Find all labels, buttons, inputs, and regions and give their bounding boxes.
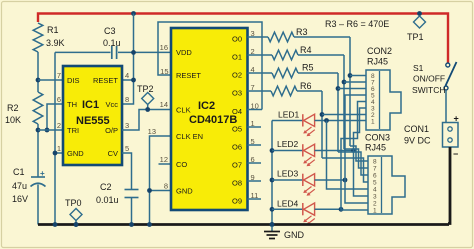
wire O8 stub [248,180,262,182]
wire +9V red rail [38,14,448,64]
svg-text:O/P: O/P [105,126,118,135]
svg-text:IC1: IC1 [82,99,99,111]
ground [271,226,273,231]
capacitor C1 [37,130,39,177]
svg-text:2: 2 [57,121,61,130]
node LED rail dots [270,148,275,153]
wire O to R3 [248,36,269,38]
wire R3 out [294,36,350,38]
LED LED4 [272,208,303,210]
resistor R3 [268,32,294,42]
svg-text:9V DC: 9V DC [404,136,431,146]
svg-text:3: 3 [373,194,377,201]
svg-text:RJ45: RJ45 [367,57,388,67]
svg-text:1: 1 [371,119,375,126]
svg-text:CLK: CLK [176,106,191,115]
svg-text:CV: CV [108,149,118,158]
capacitor C2 [122,153,132,189]
svg-text:+: + [40,169,45,178]
wire R5 net vertical [337,73,339,152]
wire R6 to CON2 [322,114,366,116]
resistor R4 [272,50,298,60]
test point TP2 [142,93,154,105]
svg-text:7: 7 [57,71,61,80]
svg-text:−: − [453,149,458,159]
node ground bus junctions [53,222,58,227]
svg-text:O8: O8 [232,179,242,188]
test point TP0 [70,209,82,221]
svg-text:8: 8 [373,159,377,166]
op-amp U1 IC1 NE555 body [63,66,122,165]
node LED2 tap [351,148,356,153]
wire R5 to CON2 [338,88,366,90]
svg-text:13: 13 [148,127,156,136]
LED LED3 [272,179,303,181]
wire RESET pin4 [122,79,134,81]
wire TRI pin2 [38,129,63,131]
svg-text:1: 1 [373,208,377,215]
svg-text:Vcc: Vcc [105,100,118,109]
wire LED4 riser to CON2 [341,102,366,210]
svg-text:O4: O4 [232,107,242,116]
svg-text:12: 12 [160,155,168,164]
svg-text:8: 8 [164,182,168,191]
svg-text:5: 5 [373,180,377,187]
svg-text:4: 4 [125,71,129,80]
op-amp U2 IC2 CD4017B body [171,28,248,210]
svg-text:R2: R2 [7,103,19,113]
svg-text:O9: O9 [232,197,242,206]
svg-text:14: 14 [160,100,168,109]
svg-text:R4: R4 [300,45,312,55]
node RESET pin4 junction [131,78,136,83]
svg-text:LED4: LED4 [277,199,299,209]
wire R6 net vertical [321,91,323,158]
svg-text:TRI: TRI [67,126,79,135]
svg-text:8: 8 [125,95,129,104]
svg-text:GND: GND [284,230,305,240]
switch S1 [446,63,450,67]
node V+ rail cross [131,50,136,55]
svg-text:5: 5 [125,144,129,153]
svg-text:CON3: CON3 [365,133,390,143]
node DIS junction [36,78,41,83]
node LED1 tap [324,118,329,123]
wire RESET15 bracket [158,22,262,110]
svg-text:6: 6 [57,95,61,104]
resistor R2 [33,92,43,124]
svg-text:6: 6 [373,173,377,180]
node R3 tap CON2 [348,73,353,78]
wire O4 pin10 stub [248,109,263,111]
svg-text:CON2: CON2 [367,46,392,56]
svg-text:15: 15 [160,67,168,76]
svg-text:O7: O7 [232,161,242,170]
svg-text:O0: O0 [232,35,242,44]
wire O9 stub [248,198,262,200]
wire O to R5 [248,72,273,74]
svg-text:R5: R5 [302,63,314,73]
wire V+ rail to VDD [118,51,171,53]
svg-text:0.1u: 0.1u [103,38,121,48]
svg-text:R3: R3 [296,27,308,37]
svg-text:GND: GND [176,187,193,196]
wire O6 stub [248,144,262,146]
svg-text:10K: 10K [5,115,21,125]
node TRI junction [36,128,41,133]
LED LED2 [272,150,303,152]
svg-text:TH: TH [67,100,77,109]
connector CON2 RJ45 jack [366,70,401,130]
wire CON1 minus to ground bus [448,147,450,224]
wire R4 out [298,54,344,56]
capacitor C3 [111,46,113,59]
connector CON3 RJ45 jack [368,156,405,214]
svg-text:3: 3 [125,121,129,130]
LED LED1 [272,120,303,122]
wire R4 to CON3 [344,149,368,168]
wire LED4 drop to CON3 [341,208,368,211]
wire TH pin6 [47,104,63,130]
svg-text:C1: C1 [13,167,25,177]
svg-text:SWITCH: SWITCH [412,85,446,95]
node R4 tap CON2 [342,80,347,85]
connector CON1 9V DC [443,123,459,148]
svg-text:0.01u: 0.01u [96,195,119,205]
wire R6 out [297,90,322,92]
svg-text:16: 16 [160,43,168,52]
svg-text:S1: S1 [413,63,424,73]
wire O7 stub [248,162,262,164]
resistor R6 [271,86,297,96]
svg-text:VDD: VDD [176,48,192,57]
node R5 tap CON2 [336,86,341,91]
svg-text:R6: R6 [300,81,312,91]
wire R5 out [298,72,338,74]
svg-text:CLK EN: CLK EN [176,132,203,141]
wire ground rail to C3 [55,51,111,53]
wire LED2 drop to CON3 [354,151,369,197]
wire LED ground rail [271,121,273,225]
resistor R1 [33,23,43,52]
svg-text:O2: O2 [232,71,242,80]
svg-text:+: + [454,114,459,124]
wire CO pin12 stub [159,163,172,165]
wire R5 to CON3 [338,152,368,175]
wire LED3 riser to CON2 [345,95,366,180]
wire ground bus [38,223,449,226]
wire O to R4 [248,54,273,56]
svg-text:C2: C2 [100,182,112,192]
test point TP1 [417,11,422,16]
wire R3 net vertical [349,37,351,146]
wire CLK EN pin13 ground [150,136,172,225]
svg-text:7: 7 [373,166,377,173]
wire R6 to CON3 [322,158,368,182]
wire LED3 drop to CON3 [345,180,368,203]
wire ground drop x55 [54,52,56,224]
node LED3 tap [343,178,348,183]
svg-text:4: 4 [373,187,377,194]
wire R3 to CON2 [350,75,366,77]
svg-text:C3: C3 [104,26,116,36]
node GND pin1 junction [53,151,58,156]
node TP0 junction [74,222,79,227]
svg-text:CON1: CON1 [404,124,429,134]
svg-text:CO: CO [176,160,187,169]
wire R3 to CON3 [350,146,368,161]
svg-text:16V: 16V [12,194,28,204]
node LED4 tap [339,207,344,212]
svg-text:RJ45: RJ45 [365,143,386,153]
wire R4 net vertical [343,55,345,149]
svg-text:3.9K: 3.9K [46,38,65,48]
svg-text:CD4017B: CD4017B [189,114,237,126]
svg-text:R1: R1 [47,25,59,35]
wire LED2 riser to CON2 [354,108,367,151]
resistor R5 [272,68,298,78]
svg-text:ON/OFF: ON/OFF [413,74,445,84]
svg-text:1: 1 [57,144,61,153]
svg-text:O6: O6 [232,143,242,152]
node GND pin8 junction [147,188,152,193]
svg-text:47u: 47u [12,181,27,191]
svg-text:R3 – R6 = 470E: R3 – R6 = 470E [325,19,389,29]
svg-text:IC2: IC2 [198,100,215,112]
node R6 tap CON2 [320,112,325,117]
svg-text:LED3: LED3 [277,169,299,179]
svg-text:TP1: TP1 [407,32,424,42]
svg-text:TP0: TP0 [65,198,82,208]
svg-text:O5: O5 [232,125,242,134]
svg-text:2: 2 [373,201,377,208]
svg-text:DIS: DIS [67,76,80,85]
node +9V feed junction [131,11,136,16]
svg-text:LED1: LED1 [278,110,300,120]
svg-text:GND: GND [67,149,84,158]
wire O/P pin3 to CLK pin14 [122,110,171,131]
wire O to R6 [248,90,272,92]
wire LED1 drop to CON3 [327,121,369,190]
svg-text:O1: O1 [232,53,242,62]
svg-text:LED2: LED2 [277,139,299,149]
wire GND pin1 [55,152,63,154]
svg-text:TP2: TP2 [137,84,154,94]
svg-text:RESET: RESET [176,71,201,80]
wire O5 stub [248,126,262,128]
svg-text:O3: O3 [232,89,242,98]
wire GND pin8 [150,190,172,192]
wire V+ feed from red rail [122,14,134,105]
svg-text:RESET: RESET [93,76,118,85]
node TP2 junction [145,107,150,112]
wire R4 to CON2 [344,81,366,83]
wire DIS pin7 [38,79,63,81]
